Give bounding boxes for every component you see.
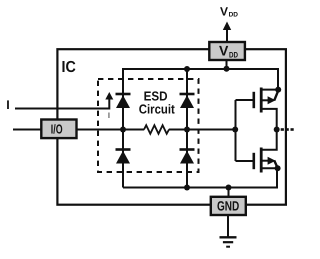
node NMOS source / rail [275,165,281,171]
VDD supply arrow [223,22,231,42]
svg-text:V: V [220,5,228,19]
node output [274,127,280,133]
diode D4 bottom-right [180,150,195,164]
ESD label [139,88,176,116]
svg-text:Circuit: Circuit [139,101,176,116]
wire right diode branch [186,69,188,188]
node top rail / right branch [184,66,190,72]
diode D3 top-right [180,94,195,108]
wire NMOS gate lead [236,160,253,162]
svg-text:I/O: I/O [51,122,63,137]
output continuation dots [281,128,294,131]
wire VDD stub [226,60,228,70]
svg-text:DD: DD [229,12,239,19]
wire I/O left stub [13,129,42,131]
dashed stub below I arrow [108,113,110,119]
svg-text:V: V [219,42,229,58]
svg-text:GND: GND [217,198,239,213]
node bottom rail / GND stub [226,185,232,191]
wire top VDD rail [123,69,278,94]
GND box [211,197,246,215]
ground symbol [220,237,237,246]
VDD box [209,42,245,60]
wire GND stub [228,188,230,198]
wire GND to ground symbol [227,215,229,237]
svg-text:DD: DD [229,51,238,60]
node I/O line / gate bus [232,127,238,133]
wire I line [15,98,109,109]
transistor M1 (top, PMOS) [254,88,279,130]
transistor M2 (bottom, NMOS) [254,130,278,173]
wire I/O line right of resistor [169,129,235,131]
node I/O line / right branch [184,127,190,133]
ESD dashed box [98,79,199,172]
resistor [144,125,169,134]
diode D2 bottom-left [116,150,131,164]
svg-text:I: I [6,98,9,112]
I/O box [41,120,76,139]
wire gate bus [235,100,237,161]
svg-text:IC: IC [62,59,77,76]
IC label [62,59,77,76]
node bottom rail / right branch [184,185,190,191]
node PMOS source / rail [275,87,281,93]
wire I/O line left of resistor [76,129,144,131]
node I/O line / left branch [120,127,126,133]
node VDD-rail junction [224,66,230,72]
IC box [57,49,286,205]
wire bottom rail [123,168,277,187]
ESD path arrow [105,92,113,100]
I label [6,98,9,112]
diode D1 top-left [116,94,131,108]
wire PMOS gate lead [236,99,253,101]
VDD label [220,5,238,19]
wire left diode branch [122,69,124,188]
